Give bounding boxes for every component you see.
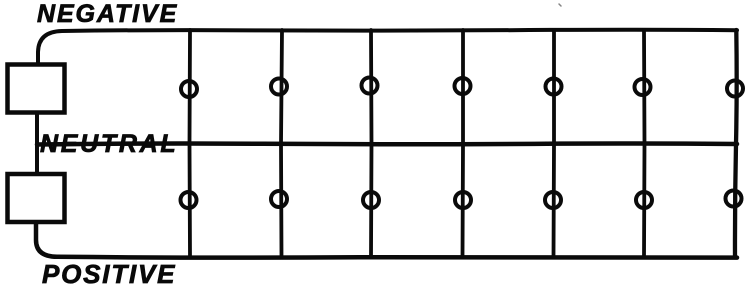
lamp L13 (branch 6, neutral-positive) [636,192,652,208]
lamp L6 (branch 6, negative-neutral) [635,79,651,95]
lamp L8 (branch 1, neutral-positive) [181,192,197,208]
wire: G1 bottom to neutral to G2 top [35,114,39,172]
wire: branch 3 riser [369,30,373,257]
lamp L11 (branch 4, neutral-positive) [455,192,471,208]
lamp L4 (branch 4, negative-neutral) [455,78,471,94]
lamp L14 (branch 7, neutral-positive) [726,191,742,207]
wire: POSITIVE bus (bottom horizontal with left curve up to generator G2) [36,223,737,258]
lamp L2 (branch 2, negative-neutral) [271,79,287,95]
lamp L12 (branch 5, neutral-positive) [545,192,561,208]
wire: branch 2 riser [281,30,282,257]
wire: NEUTRAL bus (middle horizontal) [37,143,737,144]
lamp L5 (branch 5, negative-neutral) [546,79,562,95]
generator G2 (lower dynamo box) [8,174,65,222]
wire: branch 1 riser [188,30,192,257]
svg-text:POSITIVE: POSITIVE [42,259,176,289]
lamp L1 (branch 1, negative-neutral) [181,81,197,97]
wire: branch 5 riser [552,30,556,257]
wire: NEGATIVE bus (top horizontal with left curve down to generator G1) [38,30,737,63]
lamp L10 (branch 3, neutral-positive) [363,192,379,208]
lamp L7 (branch 7, negative-neutral) [727,81,743,97]
generator G1 (upper dynamo box) [8,65,65,113]
svg-text:NEUTRAL: NEUTRAL [40,130,178,158]
wire: branch 6 riser [642,30,646,257]
wire: branch 4 riser [461,30,465,257]
wire: right-edge riser (branch 7) [735,30,737,257]
speck (scan artifact near top) [559,4,561,6]
svg-text:NEGATIVE: NEGATIVE [37,0,178,28]
lamp L9 (branch 2, neutral-positive) [271,191,287,207]
lamp L3 (branch 3, negative-neutral) [362,78,378,94]
